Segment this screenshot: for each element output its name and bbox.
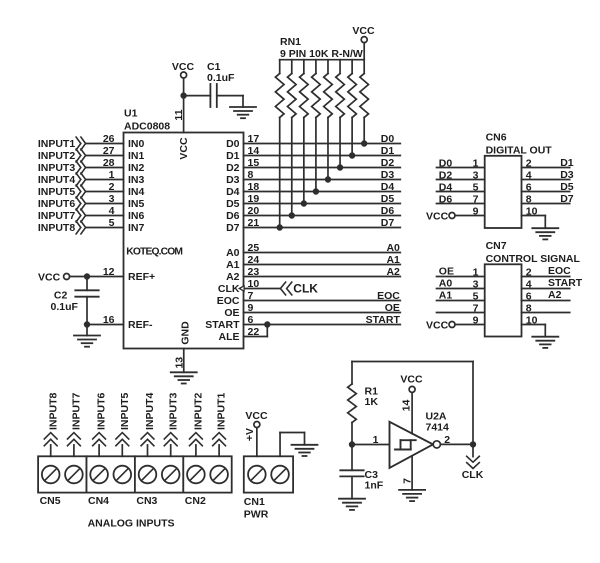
svg-text:KOTEQ.COM: KOTEQ.COM bbox=[126, 247, 182, 258]
svg-text:VCC: VCC bbox=[352, 25, 375, 37]
svg-text:7414: 7414 bbox=[426, 422, 450, 434]
svg-text:0.1uF: 0.1uF bbox=[51, 301, 79, 313]
svg-text:D5: D5 bbox=[560, 181, 574, 193]
svg-text:14: 14 bbox=[401, 400, 413, 412]
svg-text:1K: 1K bbox=[365, 396, 379, 408]
svg-text:D7: D7 bbox=[381, 217, 395, 229]
svg-text:CLK: CLK bbox=[293, 282, 318, 296]
svg-text:CN2: CN2 bbox=[185, 495, 206, 507]
svg-text:VCC: VCC bbox=[38, 271, 61, 283]
svg-text:11: 11 bbox=[173, 109, 185, 120]
svg-text:A0: A0 bbox=[439, 277, 453, 289]
svg-text:INPUT7: INPUT7 bbox=[38, 210, 76, 222]
svg-text:OE: OE bbox=[385, 302, 400, 314]
svg-text:IN4: IN4 bbox=[128, 186, 145, 198]
svg-text:IN3: IN3 bbox=[128, 174, 145, 186]
svg-text:D6: D6 bbox=[381, 205, 395, 217]
svg-text:D6: D6 bbox=[226, 210, 240, 222]
svg-text:GND: GND bbox=[180, 321, 192, 345]
svg-text:CLK: CLK bbox=[462, 469, 484, 481]
svg-text:D1: D1 bbox=[381, 145, 395, 157]
svg-text:D4: D4 bbox=[226, 186, 240, 198]
svg-text:A0: A0 bbox=[386, 242, 400, 254]
svg-text:D0: D0 bbox=[226, 138, 240, 150]
svg-text:START: START bbox=[548, 277, 583, 289]
svg-text:EOC: EOC bbox=[548, 265, 571, 277]
svg-text:20: 20 bbox=[248, 205, 260, 217]
svg-text:CN5: CN5 bbox=[40, 495, 61, 507]
svg-text:D2: D2 bbox=[226, 162, 240, 174]
svg-text:D2: D2 bbox=[439, 169, 453, 181]
svg-text:15: 15 bbox=[248, 157, 260, 169]
svg-text:CN7: CN7 bbox=[486, 240, 507, 252]
svg-text:28: 28 bbox=[103, 157, 115, 169]
svg-text:VCC: VCC bbox=[400, 374, 423, 386]
svg-text:D5: D5 bbox=[226, 198, 240, 210]
svg-text:EOC: EOC bbox=[377, 290, 400, 302]
svg-text:19: 19 bbox=[248, 193, 260, 205]
svg-text:D2: D2 bbox=[381, 157, 395, 169]
svg-text:IN6: IN6 bbox=[128, 210, 145, 222]
svg-text:D6: D6 bbox=[439, 193, 453, 205]
svg-text:A2: A2 bbox=[386, 266, 400, 278]
svg-text:IN1: IN1 bbox=[128, 150, 145, 162]
svg-text:7: 7 bbox=[402, 478, 414, 484]
svg-text:U1: U1 bbox=[124, 108, 138, 120]
svg-text:INPUT7: INPUT7 bbox=[71, 393, 83, 431]
svg-text:OE: OE bbox=[224, 307, 239, 319]
svg-text:D5: D5 bbox=[381, 193, 395, 205]
svg-text:REF+: REF+ bbox=[128, 271, 155, 283]
svg-text:INPUT1: INPUT1 bbox=[216, 393, 228, 431]
svg-text:INPUT5: INPUT5 bbox=[119, 393, 131, 431]
svg-text:REF-: REF- bbox=[128, 319, 153, 331]
svg-text:INPUT1: INPUT1 bbox=[38, 138, 76, 150]
svg-text:CLK: CLK bbox=[218, 283, 240, 295]
svg-text:ALE: ALE bbox=[219, 331, 240, 343]
svg-text:IN7: IN7 bbox=[128, 222, 145, 234]
svg-text:D7: D7 bbox=[560, 193, 574, 205]
svg-text:CONTROL SIGNAL: CONTROL SIGNAL bbox=[486, 253, 581, 265]
svg-text:D4: D4 bbox=[439, 181, 453, 193]
svg-text:CN1: CN1 bbox=[244, 496, 265, 508]
svg-text:26: 26 bbox=[103, 133, 115, 145]
svg-text:INPUT2: INPUT2 bbox=[38, 150, 76, 162]
svg-text:VCC: VCC bbox=[245, 410, 268, 422]
svg-text:D0: D0 bbox=[381, 133, 395, 145]
svg-text:D4: D4 bbox=[381, 181, 395, 193]
svg-text:D3: D3 bbox=[560, 169, 574, 181]
svg-text:ADC0808: ADC0808 bbox=[124, 121, 170, 133]
svg-text:VCC: VCC bbox=[172, 61, 195, 73]
svg-text:2: 2 bbox=[444, 434, 450, 446]
svg-text:CN6: CN6 bbox=[486, 132, 507, 144]
svg-text:VCC: VCC bbox=[426, 319, 449, 331]
svg-text:INPUT8: INPUT8 bbox=[38, 222, 76, 234]
svg-text:IN2: IN2 bbox=[128, 162, 145, 174]
svg-text:ANALOG INPUTS: ANALOG INPUTS bbox=[88, 518, 175, 530]
svg-text:1: 1 bbox=[109, 169, 115, 181]
svg-text:9 PIN 10K R-N/W: 9 PIN 10K R-N/W bbox=[280, 48, 363, 60]
svg-text:VCC: VCC bbox=[178, 137, 190, 160]
svg-text:INPUT4: INPUT4 bbox=[144, 393, 156, 431]
svg-text:VCC: VCC bbox=[426, 210, 449, 222]
svg-text:CN4: CN4 bbox=[88, 495, 109, 507]
svg-text:PWR: PWR bbox=[244, 509, 269, 521]
svg-text:INPUT3: INPUT3 bbox=[167, 393, 179, 431]
svg-text:2: 2 bbox=[109, 181, 115, 193]
svg-text:INPUT8: INPUT8 bbox=[47, 393, 59, 431]
svg-text:IN0: IN0 bbox=[128, 138, 145, 150]
svg-text:D1: D1 bbox=[560, 157, 574, 169]
svg-text:27: 27 bbox=[103, 145, 115, 157]
svg-text:D0: D0 bbox=[439, 157, 453, 169]
svg-text:INPUT3: INPUT3 bbox=[38, 162, 76, 174]
svg-text:17: 17 bbox=[248, 133, 260, 145]
svg-text:A0: A0 bbox=[226, 247, 240, 259]
svg-text:0.1uF: 0.1uF bbox=[207, 72, 235, 84]
svg-text:21: 21 bbox=[248, 217, 260, 229]
svg-text:IN5: IN5 bbox=[128, 198, 145, 210]
svg-text:DIGITAL OUT: DIGITAL OUT bbox=[486, 145, 553, 157]
svg-text:INPUT6: INPUT6 bbox=[38, 198, 76, 210]
svg-text:EOC: EOC bbox=[217, 295, 240, 307]
svg-text:OE: OE bbox=[439, 265, 454, 277]
svg-text:START: START bbox=[205, 319, 240, 331]
svg-text:D7: D7 bbox=[226, 222, 240, 234]
svg-text:4: 4 bbox=[109, 205, 115, 217]
svg-text:INPUT4: INPUT4 bbox=[38, 174, 76, 186]
svg-text:5: 5 bbox=[109, 217, 115, 229]
svg-text:13: 13 bbox=[174, 357, 186, 369]
svg-text:C2: C2 bbox=[54, 290, 68, 302]
svg-text:D1: D1 bbox=[226, 150, 240, 162]
svg-text:A1: A1 bbox=[386, 254, 400, 266]
svg-text:A2: A2 bbox=[226, 271, 240, 283]
svg-text:D3: D3 bbox=[226, 174, 240, 186]
svg-text:18: 18 bbox=[248, 181, 260, 193]
svg-text:CN3: CN3 bbox=[136, 495, 157, 507]
svg-text:A2: A2 bbox=[548, 289, 562, 301]
svg-text:INPUT2: INPUT2 bbox=[193, 393, 205, 431]
svg-text:START: START bbox=[366, 314, 401, 326]
svg-text:D3: D3 bbox=[381, 169, 395, 181]
svg-text:A1: A1 bbox=[226, 259, 240, 271]
svg-text:1: 1 bbox=[373, 434, 379, 446]
svg-text:INPUT6: INPUT6 bbox=[96, 393, 108, 431]
svg-text:+V: +V bbox=[244, 428, 256, 441]
svg-text:14: 14 bbox=[248, 145, 260, 157]
svg-text:INPUT5: INPUT5 bbox=[38, 186, 76, 198]
svg-text:RN1: RN1 bbox=[280, 36, 301, 48]
svg-text:3: 3 bbox=[109, 193, 115, 205]
svg-text:8: 8 bbox=[248, 169, 254, 181]
svg-text:A1: A1 bbox=[439, 289, 453, 301]
svg-text:1nF: 1nF bbox=[365, 479, 384, 491]
